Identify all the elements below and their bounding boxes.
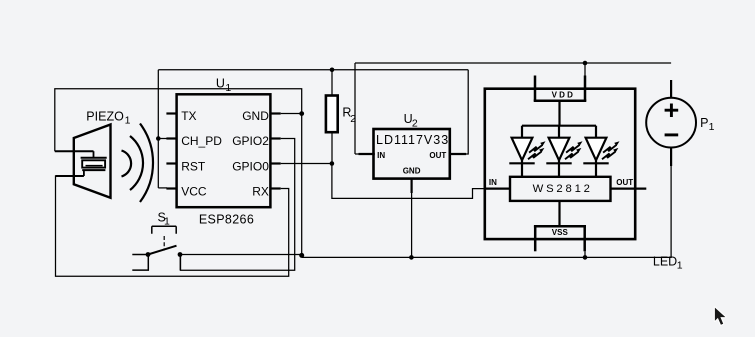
label PIEZO1 xyxy=(86,110,130,127)
wire VSS internal xyxy=(558,201,560,226)
svg-text:PIEZO: PIEZO xyxy=(86,110,124,124)
svg-text:P: P xyxy=(700,116,708,130)
svg-text:VDD: VDD xyxy=(552,91,576,100)
wire rail to U2 IN xyxy=(354,63,356,154)
svg-text:1: 1 xyxy=(709,121,715,133)
WS2812 chip box xyxy=(510,177,611,201)
junction dot GND bottom rail xyxy=(299,253,304,258)
svg-text:VSS: VSS xyxy=(552,228,569,237)
regulator U2 box xyxy=(374,129,450,179)
wire VDD internal xyxy=(522,101,596,126)
wire 3V3 net U2 OUT to ESP xyxy=(158,70,468,188)
pin U2 OUT xyxy=(429,151,466,160)
svg-text:CH_PD: CH_PD xyxy=(181,134,222,148)
wire 5V rail top xyxy=(355,62,671,64)
svg-text:VCC: VCC xyxy=(181,184,207,198)
pin GPIO2 xyxy=(232,134,280,148)
ESP8266 U1 box xyxy=(177,94,271,207)
wire R2 top xyxy=(331,70,333,96)
wire GND net piezo to ESP GND xyxy=(55,89,302,255)
svg-text:RX: RX xyxy=(252,184,269,198)
led D2 xyxy=(546,126,582,177)
junction dot VSS rail xyxy=(583,255,588,260)
junction dot GPIO0/R2 xyxy=(330,161,335,166)
svg-text:GPIO2: GPIO2 xyxy=(232,134,269,148)
svg-text:2: 2 xyxy=(350,113,356,125)
svg-text:ESP8266: ESP8266 xyxy=(199,212,254,226)
pin TX xyxy=(166,109,196,123)
label R2 xyxy=(342,106,356,126)
wire R2 bottom xyxy=(331,132,333,163)
wire GPIO0 to R2 node xyxy=(281,163,332,165)
svg-text:LD1117V33: LD1117V33 xyxy=(376,133,449,147)
label LED1 xyxy=(653,255,683,272)
svg-text:TX: TX xyxy=(181,109,196,123)
svg-text:WS2812: WS2812 xyxy=(533,183,593,195)
power source P1 xyxy=(646,80,696,166)
pin WS2812 OUT xyxy=(611,178,647,189)
svg-text:1: 1 xyxy=(125,115,131,127)
svg-text:1: 1 xyxy=(225,82,231,94)
label S1 xyxy=(158,211,171,228)
svg-text:LED: LED xyxy=(653,255,677,269)
wire GPIO2 to switch xyxy=(180,139,294,271)
wire GND bottom rail left segment xyxy=(180,255,302,258)
pin GPIO0 xyxy=(232,159,280,173)
wire VSS down xyxy=(584,251,586,257)
wire GPIO0 node to WS2812 IN xyxy=(332,164,485,199)
label P1 xyxy=(700,116,715,133)
svg-text:U: U xyxy=(216,77,225,91)
wire RX to piezo xyxy=(56,176,289,276)
wire rail to WS2812 VDD xyxy=(584,63,586,76)
svg-text:OUT: OUT xyxy=(429,151,446,160)
label ESP8266 xyxy=(199,212,254,226)
pin WS2812 IN xyxy=(485,178,510,189)
piezo PIEZO1 xyxy=(55,124,153,203)
led D3 xyxy=(583,126,619,177)
pin VDD xyxy=(534,76,587,101)
pin GND xyxy=(242,109,280,123)
mouse cursor xyxy=(715,308,726,325)
junction dot U2 GND rail xyxy=(409,255,414,260)
wire GND bottom rail right segment xyxy=(302,150,671,257)
svg-text:OUT: OUT xyxy=(616,178,633,187)
svg-text:GND: GND xyxy=(403,167,421,176)
label U1 xyxy=(216,77,232,95)
junction dot switch left xyxy=(146,252,151,257)
pin RX xyxy=(252,184,280,198)
pin U2 IN xyxy=(355,151,385,160)
pin CH_PD xyxy=(166,134,222,148)
pin VSS xyxy=(534,226,586,251)
svg-text:GND: GND xyxy=(242,109,269,123)
switch S1 xyxy=(132,226,180,270)
svg-text:IN: IN xyxy=(489,178,497,187)
junction dot switch right xyxy=(178,252,183,257)
pin U2 GND xyxy=(403,167,421,193)
label U2 xyxy=(404,112,418,129)
resistor R2 xyxy=(326,96,338,133)
svg-text:2: 2 xyxy=(412,117,418,129)
junction dot 3V3/CH_PD xyxy=(156,136,161,141)
junction dot rail/VDD xyxy=(583,61,588,66)
junction dot 3V3/R2 xyxy=(330,68,335,73)
pin VCC xyxy=(166,184,206,198)
svg-text:GPIO0: GPIO0 xyxy=(232,159,269,173)
led D1 xyxy=(509,126,545,177)
svg-text:IN: IN xyxy=(377,151,385,160)
wire U2 GND down xyxy=(411,193,413,257)
svg-text:RST: RST xyxy=(181,159,206,173)
svg-text:1: 1 xyxy=(677,259,683,271)
pin RST xyxy=(166,159,205,173)
WS2812 module outline xyxy=(485,89,635,239)
junction dot ESP GND xyxy=(299,111,304,116)
svg-text:1: 1 xyxy=(164,215,170,227)
